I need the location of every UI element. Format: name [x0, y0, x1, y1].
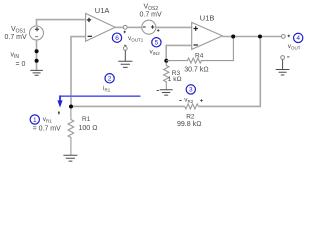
svg-text:0.7 mV: 0.7 mV: [140, 12, 163, 19]
wire: vOUT1 terminal to VOS2: [127, 26, 142, 28]
svg-text:0.7 mV: 0.7 mV: [5, 34, 28, 41]
svg-text:2: 2: [108, 76, 112, 83]
node 4 circled: [294, 33, 303, 42]
svg-text:R4: R4: [195, 53, 204, 60]
probe minus circle (vOUT): [281, 56, 285, 60]
wire: VOS1 top to U1A + input: [37, 20, 86, 27]
minus mark (vOUT probe): [287, 56, 289, 58]
plus mark (vOUT1 probe): [123, 31, 126, 34]
resistor R2: [185, 104, 199, 109]
plus mark (vOUT probe): [288, 35, 291, 38]
plus mark (vR2): [200, 99, 203, 102]
probe minus circle (vOUT1): [123, 47, 127, 51]
svg-text:100 Ω: 100 Ω: [79, 125, 98, 132]
current probe iR1 arrow: [59, 96, 61, 103]
node 1 circled: [30, 115, 39, 124]
svg-text:6: 6: [115, 35, 119, 42]
resistor R4: [166, 37, 233, 64]
svg-text:3: 3: [189, 87, 193, 94]
ground (R1): [63, 155, 77, 161]
svg-text:99.8 kΩ: 99.8 kΩ: [177, 121, 201, 128]
ground (VOS1): [30, 70, 43, 75]
wire: output down to bottom rail: [198, 38, 260, 106]
op-amp U1B: [192, 22, 223, 49]
minus mark (vOUT1 probe): [124, 44, 126, 46]
junction node R3/R4: [164, 59, 168, 63]
svg-text:U1B: U1B: [200, 13, 215, 22]
svg-text:30.7 kΩ: 30.7 kΩ: [184, 66, 208, 73]
wire: U1B output rail: [222, 36, 281, 38]
voltage source VOS2: [142, 20, 156, 34]
wire: U1A output to terminal: [115, 26, 123, 28]
node 3 circled: [186, 85, 195, 94]
svg-text:R1: R1: [82, 116, 91, 123]
svg-text:= 0.7 mV: = 0.7 mV: [33, 125, 62, 132]
resistor R3: [164, 63, 169, 90]
wire: U1B - input to feedback node: [166, 45, 192, 60]
terminal circle vOUT: [281, 35, 285, 39]
svg-text:1 kΩ: 1 kΩ: [168, 76, 182, 83]
voltage source VOS1: [30, 26, 44, 40]
ground (R3): [160, 90, 173, 95]
svg-text:1: 1: [33, 117, 37, 124]
node 2 circled: [105, 74, 114, 83]
svg-text:4: 4: [296, 35, 300, 42]
resistor R1: [68, 109, 74, 156]
probe ground lead (vOUT1): [124, 50, 126, 61]
op-amp U1A: [86, 13, 116, 41]
node 6 circled: [112, 33, 121, 42]
current probe iR1 blue line: [60, 95, 141, 97]
node vIN junction dot upper: [35, 49, 39, 53]
ground (vOUT probe): [276, 70, 290, 76]
terminal circle vOUT1: [123, 25, 127, 29]
wire: VOS2 to U1B + input: [156, 26, 192, 28]
wire: VOS1 bottom to ground: [36, 40, 38, 70]
node 5 circled: [152, 38, 161, 47]
wire: R2 left to R1 node: [71, 105, 185, 107]
junction dot R1 node: [69, 105, 73, 109]
plus mark outside VOS2: [157, 29, 160, 32]
probe ground lead (vOUT): [282, 60, 284, 70]
ground (vOUT1 probe): [118, 61, 132, 67]
junction dot (R2 branch): [258, 35, 262, 39]
svg-text:5: 5: [155, 40, 159, 47]
node vIN junction dot lower: [35, 59, 39, 63]
svg-text:U1A: U1A: [95, 6, 110, 15]
minus mark near R3 ground: [157, 90, 159, 92]
wire: U1A feedback (- input) down to R1 node: [71, 37, 86, 107]
plus mark (vR1 probe): [58, 111, 60, 114]
svg-text:= 0: = 0: [16, 61, 26, 68]
minus mark (vR2): [179, 99, 181, 101]
svg-text:R2: R2: [186, 114, 195, 121]
junction dot (R4 feedback): [231, 35, 235, 39]
